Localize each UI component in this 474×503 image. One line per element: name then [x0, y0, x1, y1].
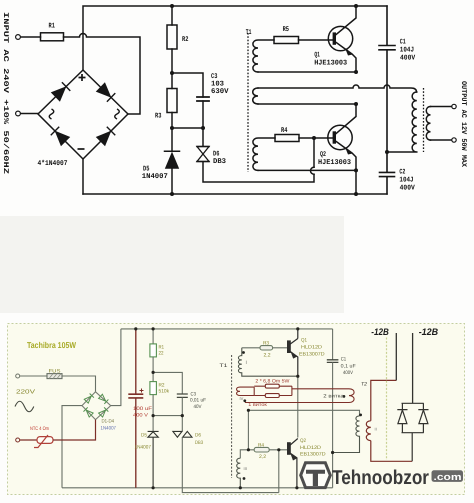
svg-text:2 * 6,8 Om 5W: 2 * 6,8 Om 5W	[255, 378, 289, 384]
wire C3 bottom to node	[202, 101, 204, 128]
wire node to C3 branch	[172, 73, 203, 97]
svg-text:D1-D4: D1-D4	[102, 419, 115, 425]
wire R1 to bridge right with hop over +rail vertical	[64, 34, 141, 115]
minus sign in bridge	[78, 148, 85, 150]
output -12V wire 1	[395, 333, 397, 380]
svg-text:C1: C1	[341, 357, 347, 363]
svg-text:0,01 uF: 0,01 uF	[190, 398, 206, 404]
T1 primary sense winding hairpin bottom line	[258, 103, 356, 105]
svg-text:510k: 510k	[159, 389, 170, 395]
T2 winding I	[333, 416, 360, 453]
midpoint vertical Q1e to Q2c	[297, 376, 299, 437]
plus mark	[140, 389, 144, 393]
wire C1 bottom to rail	[332, 362, 334, 487]
transistor Q2 bottom panel	[288, 439, 298, 488]
svg-text:R4: R4	[258, 442, 264, 448]
svg-text:400V: 400V	[400, 184, 416, 192]
wire winding I to R3	[242, 347, 260, 349]
maroon sense/feedback loop	[237, 384, 355, 402]
svg-text:HLD12D: HLD12D	[301, 344, 322, 350]
svg-text:Q1: Q1	[314, 52, 320, 60]
transistor Q2 collector	[336, 104, 356, 134]
wire node horizontal R3/D5 to C3/D6	[172, 127, 203, 129]
svg-text:1N4007: 1N4007	[101, 426, 117, 432]
AC squiggle right	[115, 109, 120, 119]
svg-text:Tachibra 105W: Tachibra 105W	[27, 340, 77, 350]
wire R1 to R2	[152, 357, 154, 382]
wire fuse to bridge top	[62, 376, 96, 392]
wire R2 to node	[152, 395, 154, 416]
svg-text:NTC 4 Om: NTC 4 Om	[30, 426, 49, 432]
AC squiggle left	[49, 109, 54, 119]
220V sine symbol	[15, 401, 34, 412]
bridge diamond D1-D4	[82, 392, 111, 420]
svg-text:D5: D5	[141, 433, 147, 439]
wire R1 column	[152, 329, 154, 344]
NTC input wire	[20, 329, 144, 488]
junction dots top schematic	[170, 4, 389, 196]
svg-text:FUS: FUS	[49, 369, 62, 375]
resistor R1	[150, 344, 157, 357]
bridge diode D1 upper-left	[84, 393, 94, 403]
input terminal circle 1	[16, 374, 20, 378]
input terminal circles	[16, 35, 21, 40]
svg-text:D6: D6	[195, 433, 201, 439]
T1 winding III with lead to R4	[253, 138, 275, 170]
junction dots bottom	[134, 327, 334, 489]
svg-text:R3: R3	[263, 341, 269, 347]
resistor R4	[275, 135, 299, 142]
svg-text:EB13007D: EB13007D	[299, 351, 325, 357]
capacitor C1	[327, 360, 339, 363]
T1 winding III	[237, 458, 241, 488]
svg-text:400V: 400V	[343, 370, 354, 376]
fuse hatch	[49, 374, 61, 379]
right node vertical	[291, 386, 293, 395]
wire C3 to node	[181, 397, 183, 415]
diode D5	[165, 128, 180, 194]
svg-text:DB3: DB3	[195, 440, 203, 446]
wire bottom rail	[62, 487, 333, 489]
emitter arrow Q1	[345, 48, 353, 56]
T1 winding I	[238, 348, 297, 376]
wire R2 to R3	[171, 49, 173, 89]
wire R3 to Q1 base	[273, 347, 288, 349]
output transformer primary	[387, 92, 417, 152]
resistor 6.8 Om bottom	[254, 395, 292, 397]
svg-text:100 uF: 100 uF	[133, 406, 152, 412]
wire -12V #1 horizontal	[371, 380, 397, 420]
resistor R4	[254, 447, 269, 452]
capacitor C1	[379, 6, 395, 152]
capacitor C3	[197, 97, 209, 101]
svg-text:T1: T1	[246, 29, 252, 37]
transistor Q2 emitter	[336, 142, 356, 195]
svg-text:104J: 104J	[399, 176, 413, 184]
svg-text:1N4007: 1N4007	[142, 173, 168, 181]
svg-text:Q2: Q2	[300, 438, 306, 444]
T2 feedback winding 2 turns	[245, 389, 354, 403]
svg-text:400 V: 400 V	[133, 413, 149, 419]
T1 core dashed	[231, 355, 233, 478]
wire node horizontal	[153, 415, 182, 417]
bottom labels olive	[16, 338, 377, 472]
svg-text:2,2: 2,2	[259, 454, 266, 460]
bridge diode lower-left	[51, 127, 70, 146]
svg-text:DB3: DB3	[213, 158, 226, 166]
wire input terminal 2 to bridge left	[21, 113, 38, 115]
T1 winding I with lead to R5	[253, 40, 274, 72]
bridge diode upper-left	[52, 82, 71, 101]
T1 primary sense winding hairpin top line with hops	[258, 85, 417, 92]
wire node to D5	[152, 416, 154, 432]
wire node to D6	[181, 416, 183, 432]
bridge diode D4 lower-right	[99, 407, 109, 417]
T1 winding III top lead	[240, 450, 254, 458]
resistor 6.8 Om top	[254, 385, 292, 387]
wire bridge minus down to bottom rail	[82, 159, 84, 194]
svg-text:R4: R4	[281, 127, 288, 135]
plus sign in bridge	[79, 74, 86, 81]
wire bridge left to bottom rail	[62, 406, 82, 488]
svg-text:4*1N4007: 4*1N4007	[38, 159, 68, 168]
svg-text:1N4007: 1N4007	[135, 445, 152, 451]
svg-text:.com: .com	[434, 472, 462, 483]
base bar Q2	[333, 131, 336, 143]
wire NTC to bridge bottom	[53, 420, 96, 440]
capacitor 100uF plates	[128, 394, 143, 398]
resistor R1	[41, 33, 64, 41]
wire R2 branch from top rail	[171, 6, 173, 25]
svg-text:-12В: -12В	[419, 327, 439, 338]
svg-text:220V: 220V	[16, 389, 35, 396]
svg-text:HJE13003: HJE13003	[314, 59, 347, 67]
transistor Q2	[328, 125, 352, 149]
wire input 1 to fuse	[20, 375, 47, 377]
wire input terminal 1 to R1	[21, 36, 41, 38]
wire winding II bottom to diode block	[371, 441, 412, 462]
resistor R3	[260, 346, 273, 350]
diode D5	[148, 431, 159, 487]
wire vertical link	[247, 410, 249, 450]
input terminal circle 2	[16, 438, 20, 442]
transistor Q1 bottom panel	[288, 329, 298, 376]
wire secondary to output terminal 2	[431, 139, 452, 141]
bridge diode lower-right	[97, 127, 116, 146]
wire top rail	[121, 328, 333, 330]
logo .com box	[432, 470, 464, 482]
wire R4 to base	[269, 449, 287, 451]
bridge diode D2 upper-right	[98, 394, 108, 404]
T2 winding I top lead	[248, 410, 359, 416]
svg-text:II: II	[375, 427, 377, 432]
capacitor C3	[177, 394, 188, 397]
svg-text:OUTPUT AC 12V 50W MAX: OUTPUT AC 12V 50W MAX	[459, 81, 467, 168]
bridge diode upper-right	[97, 83, 116, 102]
svg-text:2,2: 2,2	[264, 353, 271, 359]
svg-text:0,1 uF: 0,1 uF	[341, 363, 356, 369]
svg-text:HJE13003: HJE13003	[318, 159, 351, 167]
wire secondary to output terminal 1	[431, 106, 452, 108]
thermistor NTC	[37, 437, 53, 444]
svg-text:EB13007D: EB13007D	[300, 452, 326, 458]
svg-text:HLD12D: HLD12D	[300, 445, 321, 451]
wire Q1 base	[299, 39, 334, 41]
diode D5 body	[165, 152, 179, 169]
emitter arrow Q2	[345, 147, 353, 155]
wire Q2 base	[299, 137, 333, 139]
svg-text:Q1: Q1	[301, 338, 307, 344]
T2 core dashed	[386, 338, 388, 461]
winding polarity dots	[242, 351, 362, 480]
svg-text:Q2: Q2	[320, 151, 326, 159]
svg-text:R5: R5	[283, 26, 289, 34]
fuse FUS	[47, 374, 62, 379]
svg-text:-12В: -12В	[371, 327, 389, 338]
capacitor 100uF column	[135, 329, 137, 488]
wire branch to C3	[153, 372, 182, 394]
output -12V wire 2	[412, 333, 414, 403]
svg-text:40V: 40V	[194, 404, 203, 410]
svg-text:R1: R1	[49, 23, 56, 31]
svg-text:400V: 400V	[400, 55, 416, 63]
resistor R3	[167, 89, 177, 113]
wire T1 winding I bottom lead to emitter node	[258, 71, 356, 73]
output transformer secondary	[426, 107, 430, 141]
output diode block	[397, 403, 428, 461]
diac D6	[173, 431, 192, 437]
gray band between schematics	[0, 216, 344, 313]
winding IV hairpin	[237, 387, 255, 395]
svg-text:R2: R2	[182, 36, 188, 44]
wire R3 to node D5	[171, 113, 173, 129]
bottom panel background	[8, 324, 465, 495]
wire bridge right up to top rail	[111, 329, 121, 406]
svg-text:C1: C1	[400, 39, 406, 47]
C1 column	[332, 329, 334, 360]
left node vertical	[253, 387, 255, 395]
svg-text:T2: T2	[361, 381, 367, 387]
svg-text:III: III	[244, 466, 247, 471]
svg-text:630V: 630V	[211, 88, 229, 96]
hop of D6 wire over winding wire	[311, 167, 315, 174]
svg-text:Tehnoobzor: Tehnoobzor	[332, 467, 429, 489]
capacitor C2	[380, 152, 395, 194]
base bar Q1	[333, 32, 336, 44]
svg-text:104J: 104J	[400, 47, 414, 55]
transistor Q1	[328, 26, 352, 50]
wire T1 winding III bottom lead to emitter node	[258, 169, 356, 171]
svg-text:T1: T1	[220, 363, 228, 369]
svg-text:22: 22	[159, 351, 164, 357]
T2 winding II	[366, 421, 371, 441]
transistor Q1 collector	[336, 6, 356, 35]
svg-text:INPUT AC 240V +10% 50/60HZ: INPUT AC 240V +10% 50/60HZ	[1, 12, 10, 174]
svg-text:C2: C2	[399, 168, 405, 176]
bridge diode D3 lower-left	[83, 407, 93, 417]
wire bottom rail	[83, 193, 387, 195]
resistor R2	[167, 25, 177, 49]
wire diac to Q2 base	[278, 450, 280, 493]
resistor R5	[274, 37, 299, 44]
svg-text:2 витка: 2 витка	[323, 394, 344, 400]
T1 core	[247, 33, 249, 172]
svg-text:I: I	[246, 360, 247, 366]
wire top rail	[83, 6, 387, 70]
logo hexagon	[301, 463, 331, 488]
transistor Q1 emitter	[336, 43, 356, 73]
diac D6	[197, 128, 314, 182]
output terminal circles	[452, 104, 456, 108]
T2 secondary circuit maroon	[366, 380, 412, 461]
diode bridge diamond	[38, 70, 128, 159]
resistor R2	[150, 382, 157, 395]
diac D6 body	[197, 147, 209, 162]
svg-text:R3: R3	[155, 112, 161, 120]
svg-text:1 виток: 1 виток	[248, 402, 267, 408]
svg-text:IV: IV	[240, 396, 244, 401]
T1 primary sense winding left curls	[253, 88, 258, 104]
output transformer core	[423, 88, 425, 152]
